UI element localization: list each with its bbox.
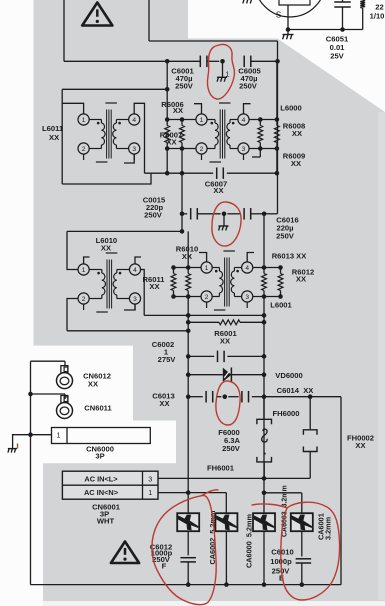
svg-text:275V: 275V	[158, 355, 177, 364]
svg-text:2: 2	[200, 146, 204, 153]
svg-text:25V: 25V	[330, 52, 344, 61]
svg-text:XX: XX	[88, 380, 98, 389]
svg-text:1: 1	[200, 117, 204, 124]
svg-text:FH6001: FH6001	[207, 464, 235, 473]
svg-text:AC IN<N>: AC IN<N>	[84, 488, 119, 497]
svg-text:XX: XX	[220, 337, 230, 346]
svg-text:1: 1	[82, 117, 86, 124]
svg-text:250V: 250V	[276, 232, 295, 241]
svg-text:3P: 3P	[95, 452, 104, 461]
svg-text:3: 3	[133, 296, 137, 303]
svg-text:XX: XX	[213, 186, 223, 195]
svg-text:L6001: L6001	[270, 301, 292, 310]
svg-text:250V: 250V	[144, 211, 163, 220]
svg-text:1: 1	[57, 430, 61, 439]
svg-text:CA6000 5.2mm: CA6000 5.2mm	[245, 514, 254, 568]
svg-text:XX: XX	[291, 159, 301, 168]
svg-text:AC IN<L>: AC IN<L>	[84, 474, 118, 483]
svg-text:XX: XX	[292, 129, 302, 138]
svg-text:C6014 XX: C6014 XX	[277, 386, 314, 395]
svg-text:CN6011: CN6011	[84, 404, 112, 413]
svg-text:XX: XX	[355, 441, 365, 450]
svg-text:XX: XX	[166, 137, 176, 146]
svg-text:3: 3	[242, 146, 246, 153]
svg-text:250V: 250V	[175, 82, 194, 91]
svg-text:L6011: L6011	[42, 124, 64, 133]
svg-text:XX: XX	[101, 244, 111, 253]
svg-text:3.2mm: 3.2mm	[324, 516, 333, 540]
svg-text:C6010: C6010	[271, 548, 293, 557]
svg-text:1: 1	[82, 267, 86, 274]
svg-text:F: F	[162, 561, 167, 570]
svg-text:S: S	[276, 11, 281, 20]
svg-text:2: 2	[82, 296, 86, 303]
svg-text:2: 2	[205, 294, 209, 301]
svg-text:250V: 250V	[222, 444, 241, 453]
svg-text:3: 3	[148, 474, 152, 483]
svg-text:4: 4	[242, 117, 246, 124]
svg-text:XX: XX	[159, 399, 169, 408]
svg-text:250V: 250V	[239, 82, 258, 91]
svg-text:4: 4	[133, 267, 137, 274]
svg-text:XX: XX	[173, 106, 183, 115]
svg-text:4: 4	[132, 117, 136, 124]
svg-text:4: 4	[245, 265, 249, 272]
svg-text:1: 1	[148, 488, 152, 497]
svg-text:3: 3	[132, 146, 136, 153]
svg-text:1/10: 1/10	[370, 12, 385, 21]
svg-text:WHT: WHT	[97, 517, 115, 526]
svg-text:R6013 XX: R6013 XX	[272, 252, 307, 261]
svg-text:XX: XX	[49, 133, 59, 142]
svg-text:XX: XX	[182, 252, 192, 261]
svg-text:1: 1	[205, 265, 209, 272]
svg-text:FH6000: FH6000	[272, 409, 299, 418]
svg-text:22: 22	[375, 3, 383, 12]
svg-text:2: 2	[82, 146, 86, 153]
svg-text:XX: XX	[296, 275, 306, 284]
svg-text:VD6000: VD6000	[275, 371, 302, 380]
svg-text:XX: XX	[149, 282, 159, 291]
svg-text:1: 1	[226, 72, 230, 79]
svg-text:3: 3	[245, 294, 249, 301]
svg-text:L6000: L6000	[280, 104, 302, 113]
